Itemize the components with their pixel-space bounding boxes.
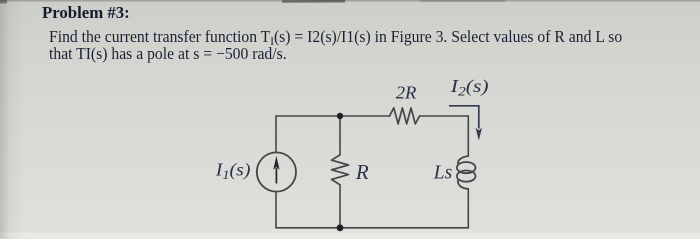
junction dot top [337, 113, 343, 119]
resistor 2R (horizontal zigzag) [390, 108, 420, 124]
wire middle branch lower [339, 185, 341, 228]
current source I1 circle [257, 152, 296, 191]
resistor R (vertical zigzag) [332, 155, 349, 185]
wire middle branch upper [339, 116, 341, 155]
wire right branch lower [467, 189, 469, 228]
svg-text:I1(s): I1(s) [215, 160, 251, 181]
current source arrow shaft [275, 168, 277, 184]
svg-text:I2(s): I2(s) [450, 77, 489, 99]
inductor Ls loop 1 [457, 162, 476, 173]
inductor Ls loop 2 [457, 171, 476, 182]
junction dot bottom [337, 224, 344, 231]
problem statement text [49, 28, 658, 62]
wire left branch lower [275, 192, 277, 228]
wire left branch upper [275, 116, 277, 153]
wire top-left segment [276, 115, 390, 117]
inductor Ls coil top hook [458, 156, 468, 164]
I2 current arrow path [449, 106, 479, 129]
I2 arrow head [476, 128, 482, 141]
wire bottom [276, 227, 468, 229]
inductor Ls coil bottom hook [458, 180, 468, 188]
title: Problem #3: [42, 4, 130, 21]
current source arrow head [273, 156, 279, 170]
wire right branch upper [467, 116, 469, 156]
wire top-right segment [420, 115, 469, 117]
svg-text:2R: 2R [396, 83, 417, 102]
svg-text:R: R [355, 160, 369, 184]
svg-text:Ls: Ls [433, 162, 452, 183]
